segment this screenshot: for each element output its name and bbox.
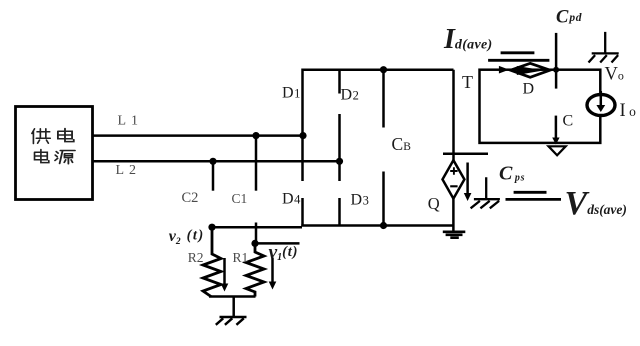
current source Io [587,95,615,116]
voltage arrow v1 [271,258,274,283]
svg-text:Q: Q [428,194,440,213]
wire T node bar [443,153,488,156]
resistor R2 [203,227,221,296]
wire Q to ground [452,199,455,232]
diode D diamond [511,63,550,77]
wire resistor bottoms [209,295,256,298]
svg-text:D3: D3 [351,191,369,208]
voltage arrow v2 [223,258,226,284]
capacitor plate line B [488,59,549,62]
ground triangle under C [549,146,566,155]
svg-text:D2: D2 [341,87,359,104]
svg-text:Vo: Vo [605,65,624,85]
wire bridge top rail [303,68,454,71]
capacitor C1 upper lead [255,136,258,191]
wire bottom rail left [212,226,303,229]
label 供电电源 (drawn strokes) [32,129,75,164]
power supply box [16,107,93,200]
current arrow beside Q [466,163,469,194]
svg-text:Cps: Cps [499,163,525,185]
capacitor Cpd lead [555,33,558,89]
wire L1 [92,134,303,137]
resistor R1 [246,243,264,296]
svg-text:Id(ave): Id(ave) [443,24,492,55]
diode D2/D3 leg [338,70,341,226]
capacitor C lead [555,116,558,138]
capacitor Vds plates [506,192,562,199]
capacitor plate line A [501,51,535,54]
svg-text:D1: D1 [282,84,300,101]
svg-text:D4: D4 [282,191,301,208]
svg-text:L2: L2 [116,163,142,178]
svg-text:R2: R2 [188,250,204,265]
svg-text:D: D [523,80,535,97]
wire right leg to Q [452,70,455,161]
wire bridge bottom rail [301,224,453,227]
chassis ground bottom [216,317,247,325]
capacitor C2 lead [212,161,215,190]
svg-text:C: C [563,113,574,130]
svg-text:v1(t): v1(t) [269,243,299,264]
capacitor C1 lower lead [255,223,258,244]
svg-text:Io: Io [620,101,637,121]
wire node v1 [256,242,300,245]
svg-text:T: T [462,72,473,92]
wire L2 [92,160,340,163]
chassis ground near Cps [471,177,500,208]
svg-text:CB: CB [392,134,412,154]
output cell rectangle (T D C Vo) [480,70,601,143]
diode D1/D4 leg (left) [301,69,304,227]
current direction arrow on top wire [499,66,509,74]
svg-text:C1: C1 [232,191,248,206]
svg-text:Vds(ave): Vds(ave) [565,185,627,222]
minus sign in Q [450,185,457,187]
dependent source Q diamond [443,160,465,198]
capacitor CB [382,70,385,226]
plus sign in Q [450,167,457,174]
wire ground stub [232,297,235,317]
chassis ground top right [589,32,619,63]
svg-text:v2(t): v2(t) [169,227,205,247]
svg-text:Cpd: Cpd [556,7,582,27]
svg-text:R1: R1 [233,250,249,265]
svg-text:C2: C2 [182,190,199,206]
svg-text:L1: L1 [118,114,144,129]
earth ground under Q [443,232,466,238]
